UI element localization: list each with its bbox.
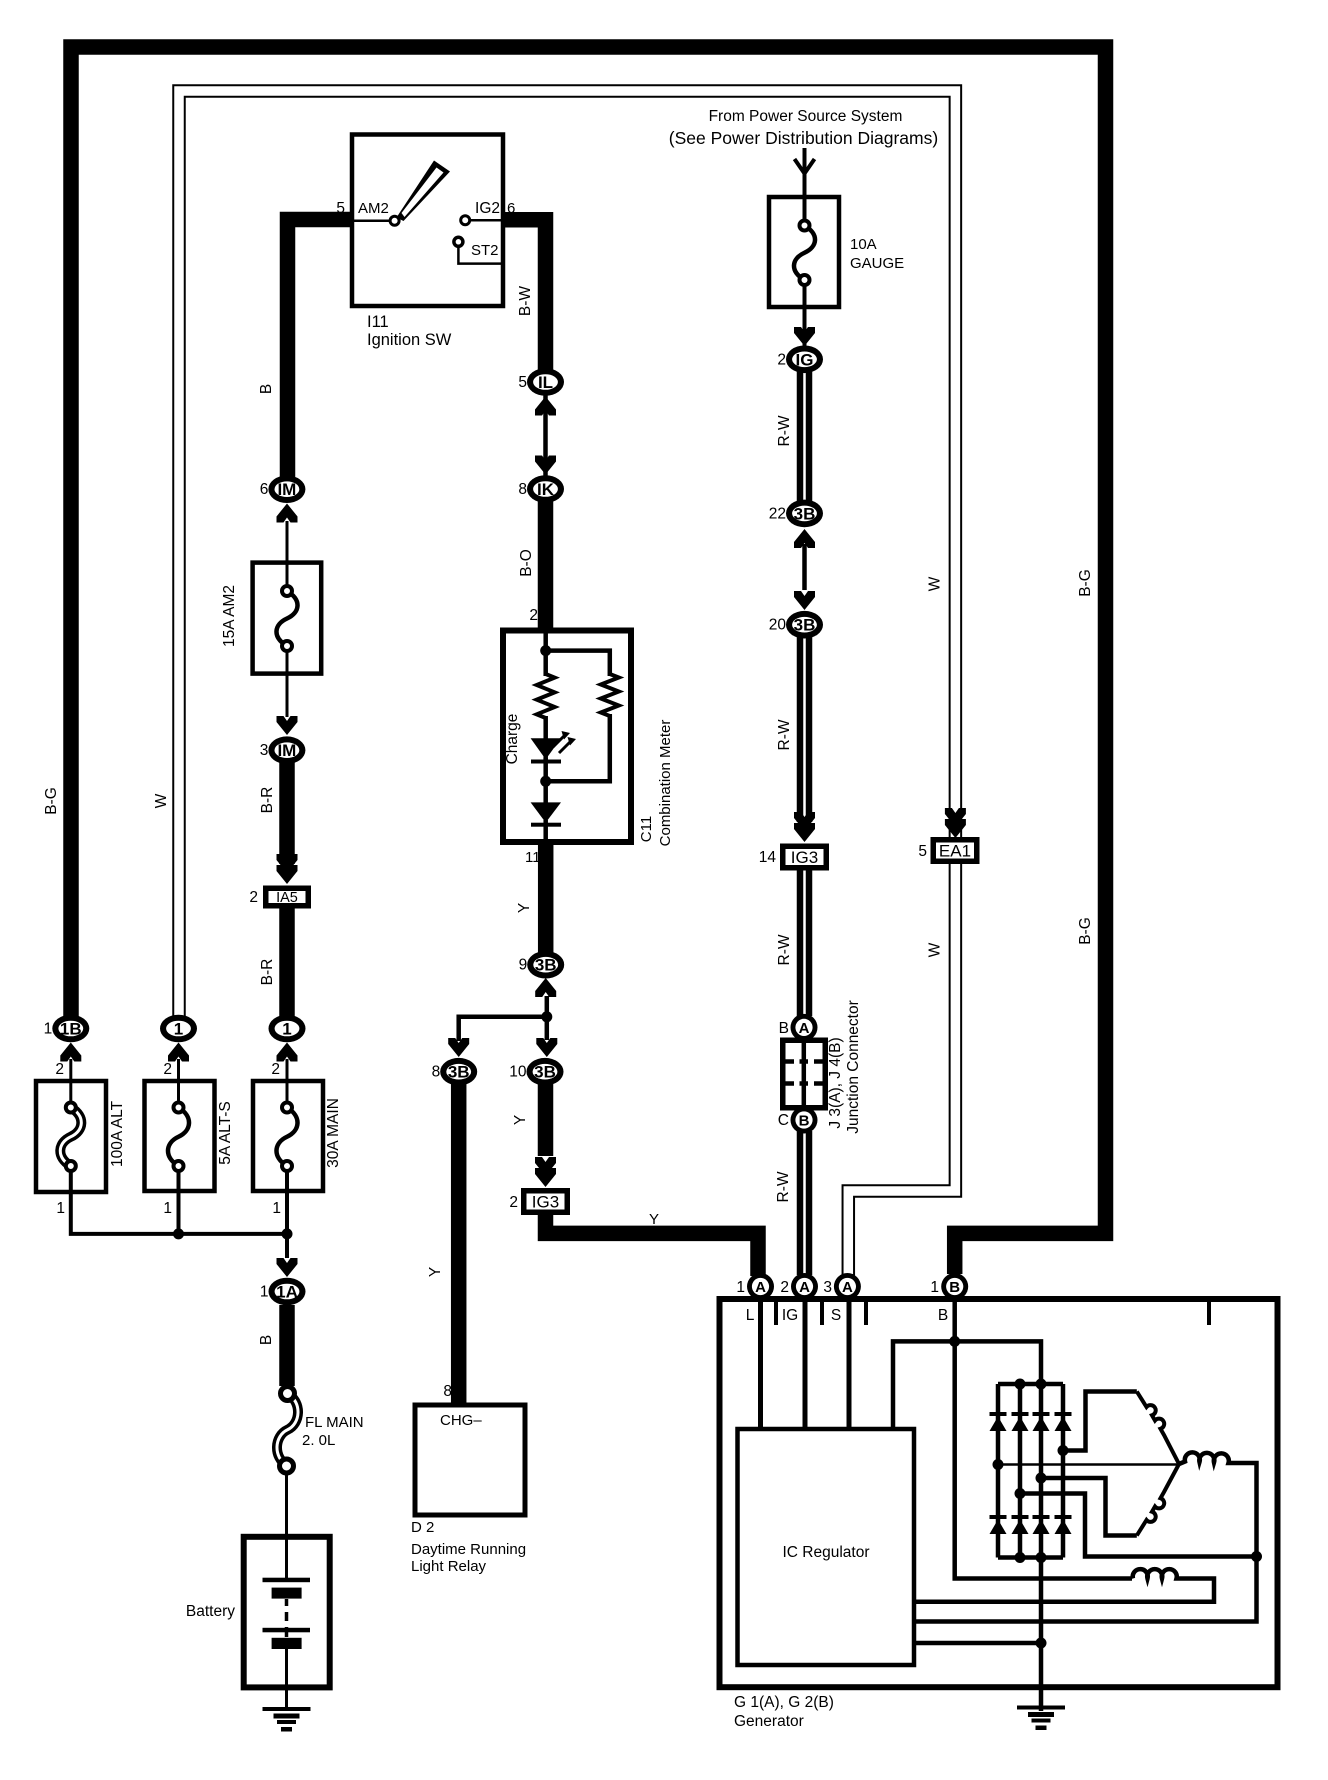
- junction dot bus 30A: [282, 1228, 293, 1239]
- stator center tap line from column 1: [998, 1463, 1179, 1466]
- svg-text:GAUGE: GAUGE: [850, 255, 904, 272]
- wire medium gauge fuse to IG oval: [803, 280, 807, 348]
- wire medium 3B22 to 3B20: [802, 544, 807, 590]
- chevron into 3B 10: [536, 1038, 557, 1057]
- svg-text:A: A: [799, 1020, 810, 1037]
- svg-text:3B: 3B: [535, 956, 557, 975]
- generator B terminal line down to field coil: [955, 1300, 1132, 1579]
- white stripe of R-W wires: [803, 371, 806, 501]
- battery plate short bottom: [272, 1638, 302, 1649]
- svg-text:B: B: [258, 1335, 275, 1345]
- svg-text:1: 1: [163, 1200, 172, 1217]
- svg-text:Daytime Running: Daytime Running: [411, 1541, 526, 1558]
- svg-text:Ignition SW: Ignition SW: [367, 331, 452, 349]
- svg-text:Light Relay: Light Relay: [411, 1558, 487, 1575]
- svg-text:C: C: [778, 1112, 789, 1129]
- svg-text:3B: 3B: [794, 616, 816, 635]
- meter LED arrows: [553, 734, 572, 753]
- svg-text:1: 1: [282, 1020, 291, 1039]
- ignition switch IG2 contact: [461, 216, 470, 225]
- svg-text:IA5: IA5: [276, 890, 298, 906]
- meter junction dot bottom: [540, 776, 551, 787]
- svg-text:1A: 1A: [276, 1283, 298, 1302]
- connector IK 8: [527, 475, 564, 503]
- wire Y thick (3B 10 to IG3 2): [538, 1084, 554, 1156]
- svg-text:5A ALT-S: 5A ALT-S: [217, 1101, 234, 1164]
- svg-text:A: A: [799, 1279, 810, 1296]
- battery ground symbol: [263, 1707, 311, 1711]
- svg-text:14: 14: [759, 849, 777, 866]
- svg-text:B: B: [799, 1113, 810, 1130]
- svg-text:1: 1: [44, 1021, 53, 1038]
- svg-text:B-O: B-O: [518, 549, 535, 577]
- svg-text:R-W: R-W: [776, 934, 793, 965]
- fuse 15A AM2 element: [276, 591, 297, 646]
- fuse 5A ALT-S element: [168, 1108, 189, 1167]
- svg-text:2: 2: [163, 1061, 172, 1078]
- generator lead from B node to IC regulator: [893, 1341, 1041, 1429]
- connector IM 6: [268, 475, 305, 503]
- fuse 10A GAUGE box: [769, 197, 839, 307]
- wire R-W double (IG 2 to 3B 22): [797, 371, 813, 501]
- fuse 5A ALT-S box: [145, 1081, 215, 1191]
- svg-text:W: W: [927, 942, 944, 957]
- wire Y thick (IG3 2 to generator L): [546, 1214, 759, 1276]
- svg-text:1: 1: [930, 1279, 939, 1296]
- rectifier column 1: [996, 1384, 1001, 1558]
- fuse 10A GAUGE element: [794, 226, 815, 281]
- svg-text:3: 3: [260, 742, 269, 759]
- svg-text:10: 10: [509, 1064, 527, 1081]
- svg-text:22: 22: [769, 505, 786, 522]
- svg-text:From Power Source System: From Power Source System: [709, 108, 903, 125]
- chevron into IK: [535, 456, 556, 475]
- svg-text:6: 6: [507, 200, 515, 217]
- connector 1 (30A MAIN): [269, 1015, 306, 1043]
- svg-text:J 3(A), J 4(B): J 3(A), J 4(B): [827, 1037, 844, 1128]
- connector IL 5: [527, 368, 564, 396]
- wire meter internal mid: [543, 716, 548, 762]
- generator IC regulator pin leads L IG S: [761, 1302, 850, 1429]
- wire B-W thick (IG2 to IL 5): [503, 220, 546, 370]
- generator terminal separators: [776, 1302, 1209, 1325]
- generator terminal A3: [834, 1273, 861, 1300]
- wire W hollow (5A ALT-S up, across top, down to EA1): [179, 91, 955, 1019]
- chevron into 1A: [277, 1258, 298, 1277]
- wire medium 15A AM2 fuse to IM3: [286, 646, 289, 717]
- svg-text:B-R: B-R: [259, 959, 276, 986]
- meter junction dot top: [540, 645, 551, 656]
- generator terminal A1: [747, 1273, 774, 1300]
- junction connector circle A: [791, 1014, 818, 1041]
- double chevron into IA5: [277, 865, 298, 884]
- svg-text:Charge: Charge: [504, 714, 521, 765]
- rectifier rail dots: [1015, 1379, 1026, 1390]
- chevron below IM 6: [277, 504, 298, 523]
- wire B-G main border (left, top, right, to generator B): [71, 47, 1106, 1274]
- ignition switch lever: [397, 161, 451, 222]
- chevron below IL: [535, 397, 556, 416]
- svg-text:20: 20: [769, 617, 787, 634]
- generator terminal B1: [941, 1273, 968, 1300]
- svg-text:30A MAIN: 30A MAIN: [325, 1098, 342, 1168]
- connector IG3 2: [521, 1188, 570, 1215]
- svg-text:Battery: Battery: [186, 1603, 235, 1620]
- chevron below MAIN 1: [277, 1043, 298, 1062]
- svg-text:R-W: R-W: [775, 1171, 792, 1202]
- svg-text:B-G: B-G: [43, 787, 60, 815]
- svg-text:A: A: [755, 1279, 766, 1296]
- junction dot right column: [1251, 1551, 1262, 1562]
- svg-text:3: 3: [823, 1279, 832, 1296]
- wire meter internal bottom: [543, 820, 548, 842]
- svg-text:IL: IL: [538, 373, 553, 392]
- battery plate long bottom: [263, 1628, 311, 1633]
- connector IA5 2: [263, 886, 311, 909]
- wire B-O thick (IK 8 to combination meter): [538, 500, 554, 630]
- svg-text:2: 2: [780, 1279, 789, 1296]
- svg-text:B-W: B-W: [517, 286, 534, 317]
- svg-text:A: A: [842, 1279, 853, 1296]
- svg-text:IM: IM: [277, 741, 296, 760]
- wire B-R thick (IA5 to 30A MAIN 1): [279, 908, 295, 1019]
- wire W hollow (EA1 down to generator S terminal): [848, 856, 955, 1276]
- connector 1A: [269, 1278, 306, 1306]
- svg-text:IK: IK: [537, 480, 555, 499]
- svg-text:Y: Y: [427, 1267, 444, 1277]
- svg-text:1: 1: [174, 1020, 183, 1039]
- connector 1 (5A ALT-S): [160, 1015, 197, 1043]
- svg-text:2: 2: [55, 1061, 64, 1078]
- rectifier top rail: [998, 1382, 1063, 1387]
- svg-text:R-W: R-W: [776, 719, 793, 750]
- svg-text:S: S: [831, 1307, 841, 1324]
- connector IG3 14: [780, 844, 829, 871]
- wire meter internal right branch: [546, 651, 610, 782]
- stator lower winding: [1137, 1464, 1179, 1536]
- wire AM2 thick (ignition SW to IM 6): [288, 220, 353, 479]
- junction dot bus 5A: [173, 1228, 184, 1239]
- svg-text:1: 1: [260, 1284, 269, 1301]
- svg-text:Y: Y: [512, 1115, 529, 1125]
- svg-text:2: 2: [529, 607, 538, 624]
- svg-text:IG: IG: [796, 350, 814, 369]
- stator branch from column 3 (lower): [1041, 1478, 1137, 1536]
- chevron below 3B 9: [535, 978, 556, 997]
- svg-text:2: 2: [509, 1194, 518, 1211]
- connector 3B 9: [527, 951, 564, 979]
- ignition switch IG2 lead: [470, 219, 503, 222]
- connector 3B 22: [786, 500, 823, 528]
- meter resistor right: [601, 674, 619, 716]
- field coil (rotor): [914, 1569, 1214, 1602]
- ignition switch AM2 lead: [352, 219, 390, 222]
- wire R-W double (IG3 14 to junction connector A): [797, 869, 813, 1016]
- svg-text:3B: 3B: [448, 1063, 470, 1082]
- wire medium inside meter top: [543, 630, 548, 652]
- rectifier diodes top row: [990, 1412, 1007, 1416]
- svg-text:EA1: EA1: [939, 842, 971, 861]
- svg-text:5: 5: [336, 200, 345, 217]
- wire medium ALT-S 1 to 5A fuse: [177, 1059, 180, 1107]
- svg-text:ST2: ST2: [471, 242, 499, 259]
- chevron into IM 3: [277, 716, 298, 735]
- wire medium 1B to 100A ALT fuse: [69, 1059, 72, 1107]
- svg-text:(See Power Distribution Diagra: (See Power Distribution Diagrams): [669, 128, 938, 148]
- generator box: [720, 1299, 1278, 1687]
- meter resistor left (charge lamp): [537, 674, 555, 718]
- svg-text:Junction Connector: Junction Connector: [845, 1000, 862, 1134]
- svg-text:B-G: B-G: [1077, 569, 1094, 597]
- ignition switch ST2 contact: [454, 237, 463, 246]
- rectifier column 3 / ground line: [1039, 1384, 1044, 1711]
- chevron into IG oval: [794, 327, 815, 346]
- IC regulator lead to ground: [914, 1641, 1041, 1646]
- svg-text:3B: 3B: [534, 1063, 556, 1082]
- connector IG 2 (gauge): [786, 346, 823, 374]
- chevron into 3B 8: [448, 1038, 469, 1057]
- connector 3B 10: [527, 1058, 564, 1086]
- wire Y thick (3B 8 to CHG relay): [451, 1084, 467, 1406]
- svg-text:R-W: R-W: [776, 415, 793, 446]
- wire medium IL to IK: [543, 395, 548, 476]
- fuse 15A AM2 box: [253, 563, 322, 674]
- generator terminal A2: [791, 1273, 818, 1300]
- svg-text:IG3: IG3: [532, 1193, 559, 1212]
- svg-text:11: 11: [525, 849, 541, 866]
- svg-text:2: 2: [271, 1061, 280, 1078]
- chevron below ALT-S 1: [168, 1043, 189, 1062]
- svg-text:Generator: Generator: [734, 1713, 804, 1730]
- svg-text:IG3: IG3: [791, 848, 818, 867]
- svg-text:5: 5: [518, 374, 527, 391]
- wire battery to ground: [285, 1687, 288, 1709]
- chevron below 1B: [60, 1043, 81, 1062]
- generator ground symbol: [1017, 1706, 1065, 1710]
- stator branch from column 4 (upper): [1063, 1392, 1137, 1451]
- stator branch from column 2: [1020, 1494, 1257, 1557]
- svg-text:I11: I11: [367, 313, 389, 331]
- wire meter internal left branch: [543, 651, 548, 676]
- junction connector circle B: [791, 1107, 818, 1134]
- svg-text:1B: 1B: [60, 1020, 82, 1039]
- wire R-W double (3B 20 to IG3 14): [797, 637, 813, 822]
- wire medium IM6 to 15A AM2 fuse: [286, 521, 289, 592]
- svg-text:B-G: B-G: [1077, 917, 1094, 945]
- wire B thick (1A to FL MAIN): [279, 1305, 295, 1386]
- svg-text:G 1(A), G 2(B): G 1(A), G 2(B): [734, 1694, 834, 1711]
- svg-text:9: 9: [519, 957, 528, 974]
- svg-text:2: 2: [777, 351, 786, 368]
- svg-text:1: 1: [736, 1279, 745, 1296]
- double chevron into IG3 14: [794, 823, 815, 842]
- svg-text:IC Regulator: IC Regulator: [782, 1544, 869, 1561]
- connector IM 3: [268, 736, 305, 764]
- svg-text:C11: C11: [638, 816, 655, 842]
- svg-text:FL MAIN: FL MAIN: [305, 1414, 364, 1431]
- svg-text:B-R: B-R: [259, 787, 276, 814]
- svg-text:AM2: AM2: [358, 200, 389, 217]
- double chevron into EA1: [945, 819, 966, 838]
- svg-text:1: 1: [56, 1200, 65, 1217]
- battery plate short top: [272, 1588, 302, 1599]
- wire medium 3B9 to junction: [545, 996, 550, 1017]
- meter charge LED: [531, 738, 561, 759]
- fuse 30A MAIN element: [276, 1108, 297, 1167]
- wire medium junction to 3B 10: [545, 1017, 550, 1040]
- ignition switch ST2 lead: [458, 247, 503, 264]
- svg-text:D 2: D 2: [411, 1519, 434, 1536]
- wire medium junction branch to 3B 8: [459, 1017, 547, 1041]
- rectifier bottom rail: [998, 1555, 1063, 1560]
- stator output inductor to right column: [914, 1452, 1257, 1621]
- svg-text:Combination Meter: Combination Meter: [657, 720, 674, 847]
- svg-text:5: 5: [918, 843, 927, 860]
- relay D2 CHG box: [415, 1405, 525, 1515]
- battery plate long top: [263, 1578, 311, 1583]
- wire Y thick (meter 11 to 3B 9): [538, 842, 554, 953]
- wire fuse bus to battery branch: [71, 1165, 287, 1258]
- ignition switch box I11: [352, 135, 503, 307]
- wire thin FL MAIN to battery: [285, 1472, 288, 1540]
- svg-text:B: B: [949, 1279, 960, 1296]
- connector 3B 20: [786, 611, 823, 639]
- svg-text:3B: 3B: [794, 504, 816, 523]
- svg-text:10A: 10A: [850, 236, 877, 253]
- double chevron into IG3 2: [535, 1168, 556, 1187]
- white core of W hollow wires: [179, 91, 955, 1017]
- meter diode: [531, 802, 561, 822]
- connector 1B: [52, 1015, 89, 1043]
- svg-text:B: B: [258, 384, 275, 394]
- svg-text:W: W: [153, 793, 170, 808]
- svg-text:B: B: [779, 1020, 789, 1037]
- svg-text:15A AM2: 15A AM2: [221, 585, 238, 647]
- chevron below 3B 22: [794, 529, 815, 548]
- wire R-W double (junction connector B to generator IG): [797, 1131, 813, 1275]
- rectifier diodes bottom row: [990, 1515, 1007, 1519]
- ignition switch AM2 contact: [390, 216, 399, 225]
- IC regulator box: [738, 1429, 915, 1665]
- stator upper winding: [1137, 1392, 1179, 1465]
- svg-text:IG: IG: [782, 1307, 798, 1324]
- svg-text:2: 2: [249, 889, 258, 906]
- combination meter box C11: [503, 631, 631, 843]
- wire medium MAIN 1 to 30A fuse: [286, 1059, 289, 1107]
- connector 3B 8: [440, 1058, 477, 1086]
- junction connector J3 J4 box: [780, 1038, 828, 1111]
- rectifier column 2: [1018, 1384, 1023, 1558]
- svg-text:8: 8: [518, 481, 527, 498]
- fuse 100A ALT box: [36, 1081, 106, 1192]
- svg-text:Y: Y: [516, 903, 533, 913]
- junction dot 3B branch: [541, 1011, 552, 1022]
- svg-text:B: B: [938, 1307, 948, 1324]
- svg-text:CHG–: CHG–: [440, 1412, 482, 1429]
- rectifier column 4: [1061, 1384, 1066, 1558]
- svg-text:W: W: [927, 576, 944, 591]
- svg-text:8: 8: [432, 1064, 441, 1081]
- fusible link 100A ALT element: [60, 1108, 81, 1167]
- svg-text:IM: IM: [277, 480, 296, 499]
- fusible link FL MAIN element: [277, 1394, 298, 1467]
- connector EA1 5: [931, 837, 980, 864]
- wire battery internal: [285, 1540, 288, 1580]
- battery box: [244, 1537, 330, 1688]
- svg-text:Y: Y: [649, 1211, 659, 1228]
- svg-text:8: 8: [443, 1383, 452, 1400]
- svg-text:IG2: IG2: [475, 200, 500, 217]
- chevron into 3B 20: [794, 591, 815, 610]
- svg-text:1: 1: [272, 1200, 281, 1217]
- svg-text:100A ALT: 100A ALT: [109, 1100, 126, 1167]
- svg-text:L: L: [746, 1307, 755, 1324]
- arrow from power source: [795, 148, 815, 176]
- svg-text:6: 6: [260, 481, 269, 498]
- svg-text:2. 0L: 2. 0L: [302, 1432, 335, 1449]
- wire medium gauge fuse lead top: [803, 176, 807, 225]
- junction dot B line: [949, 1336, 960, 1347]
- fuse 30A MAIN box: [253, 1081, 323, 1191]
- wire B-R thick (IM 3 to IA5): [279, 762, 295, 864]
